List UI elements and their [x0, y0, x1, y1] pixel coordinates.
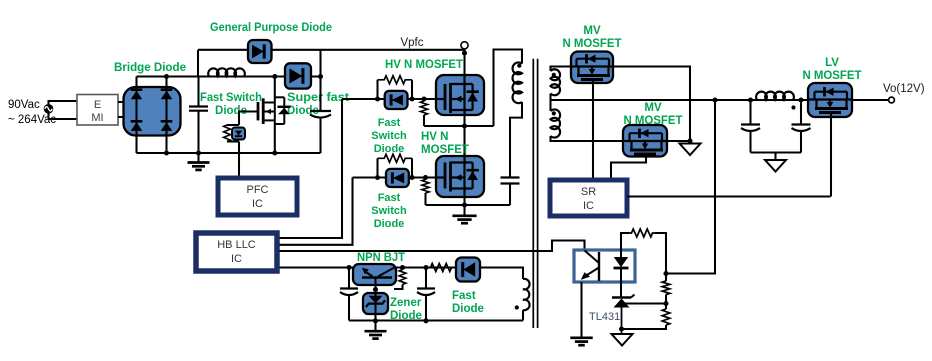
transformer T1 secondary 2 — [551, 109, 561, 137]
label NPN BJT — [357, 252, 405, 264]
wire R8 to divider — [655, 233, 666, 281]
svg-text:Bridge Diode: Bridge Diode — [114, 62, 186, 74]
svg-text:PFC: PFC — [247, 184, 269, 196]
zener diode D11 — [366, 293, 385, 314]
junction super fast diode output — [318, 74, 323, 79]
wire LED to resistor — [621, 233, 629, 250]
junction output cap1 — [748, 97, 753, 102]
junction gate1 left — [375, 96, 380, 101]
label Fast Switch Diode 1 line2 — [371, 130, 407, 142]
ground TL431 triangle — [612, 334, 633, 346]
wire LED cathode to TL431 — [620, 282, 622, 298]
svg-text:Switch: Switch — [371, 205, 407, 217]
wire Q3 gate rail — [353, 176, 437, 178]
PFC gate network loop — [227, 125, 239, 142]
transformer primary dot — [517, 64, 521, 68]
svg-text:Fast: Fast — [378, 192, 401, 204]
wire resonant return rail — [426, 204, 511, 206]
fast diode D12 box — [456, 258, 480, 282]
HV N MOSFET Q2 box — [436, 75, 484, 115]
PFC body diode D7 — [275, 97, 291, 124]
junction R6 top — [400, 265, 405, 270]
wire Q4 gate to SR IC — [592, 83, 594, 178]
label MV N MOSFET 2 line2 — [624, 115, 683, 127]
wire EMI to bridge input 2 — [118, 116, 167, 118]
wire HB LLC to gate2 — [280, 178, 353, 245]
wire NPN rail segment — [396, 266, 456, 268]
wire gate network to PFC IC — [238, 142, 240, 177]
wire HB LLC to opto collector — [280, 241, 585, 252]
label MV N MOSFET 2 line1 — [644, 102, 662, 114]
wire fast diode to aux winding — [480, 268, 523, 280]
junction MV common — [687, 138, 692, 143]
svg-text:MV: MV — [644, 102, 662, 114]
PFC output cap C2 wire top — [319, 50, 321, 111]
HV N MOSFET Q3 — [436, 153, 479, 194]
ground HV source — [452, 216, 476, 223]
wire SR IC to LV gate — [627, 195, 831, 197]
wire bottom aux rail — [349, 319, 523, 321]
svg-text:MOSFET: MOSFET — [421, 144, 469, 156]
wire C1 bottom lead — [197, 111, 199, 153]
junction bridge bottom right — [164, 150, 169, 155]
svg-text:IC: IC — [252, 198, 263, 210]
svg-text:Vpfc: Vpfc — [400, 37, 423, 49]
junction C1 at DC- rail — [196, 150, 201, 155]
super fast diode D6 — [289, 68, 303, 84]
Vpfc terminal — [461, 42, 468, 49]
bridge diode D1 — [131, 90, 143, 100]
LV N MOSFET Q6 — [809, 87, 852, 116]
label Fast Diode line2 — [452, 303, 484, 315]
Vo terminal — [889, 97, 895, 103]
label Fast Diode line1 — [452, 290, 476, 302]
bridge diode D3 — [131, 121, 143, 131]
TL431 U5 — [612, 295, 635, 335]
ground MV triangle — [680, 141, 701, 155]
fast switch diode D9 — [391, 94, 403, 105]
svg-text:~ 264Vac: ~ 264Vac — [8, 114, 56, 126]
optocoupler U4 box — [574, 250, 635, 282]
MV N MOSFET Q5 box — [623, 125, 667, 157]
bridge left leg wire — [135, 77, 137, 154]
junction output rail feedback tap — [712, 97, 717, 102]
SR IC U2 box — [550, 180, 627, 216]
junction PFC source at DC- rail — [272, 150, 277, 155]
label Bridge Diode — [114, 62, 186, 74]
wire C5 top lead — [800, 100, 802, 125]
transformer T1 primary — [513, 62, 522, 103]
NPN cap C7 top lead — [425, 268, 427, 289]
junction divider top — [663, 271, 668, 276]
wire PFC gate — [239, 112, 248, 126]
label Fast Switch Diode 2 line3 — [374, 218, 405, 230]
ground output triangle — [765, 153, 786, 172]
wire C1 top lead — [197, 77, 199, 107]
label Super fast Diode line1 — [287, 92, 349, 104]
junction below Vpfc terminal — [462, 50, 467, 55]
wire primary bottom — [510, 102, 522, 178]
PFC IC label — [247, 184, 269, 210]
ground zener — [365, 331, 387, 338]
HB LLC IC U3 box — [196, 233, 277, 271]
wire R10 bottom — [622, 325, 667, 329]
aux rail resistor R7 — [430, 264, 452, 272]
svg-text:HV N: HV N — [421, 131, 448, 143]
bridge rectifier BR1 box — [124, 87, 181, 136]
gate1 loop — [378, 80, 413, 99]
fast switch diode D10 box — [386, 169, 409, 187]
ground opto — [570, 338, 592, 345]
wire LV gate drop — [830, 117, 832, 197]
junction EMI input 2 at right leg — [164, 114, 169, 119]
svg-text:IC: IC — [231, 253, 242, 265]
label LV N MOSFET line2 — [803, 70, 862, 82]
label Vpfc — [400, 37, 423, 49]
junction gate2 left — [375, 175, 380, 180]
NPN BJT Q7 — [362, 268, 394, 286]
bulk capacitor C1 — [189, 107, 208, 111]
SR IC label — [581, 186, 596, 212]
fast switch diode D10 — [392, 172, 404, 183]
general purpose diode D5 box — [248, 40, 272, 63]
label Zener Diode line1 — [390, 297, 422, 309]
junction TL431 anode — [619, 326, 624, 331]
NPN BJT Q7 box — [353, 264, 396, 285]
label LV N MOSFET line1 — [825, 57, 839, 69]
transformer secondary 1 dot — [552, 73, 556, 77]
wire center tap — [549, 94, 551, 112]
junction C7 at bottom rail — [423, 318, 428, 323]
wire AC source to EMI bottom — [49, 114, 78, 120]
NPN cap C6 top lead — [348, 268, 350, 289]
MV N MOSFET Q4 box — [571, 52, 613, 84]
wire Q5 to common — [667, 140, 690, 142]
wire C4 top lead — [749, 100, 751, 125]
zener diode D11 box — [363, 293, 388, 314]
wire C3 bottom — [509, 184, 511, 206]
junction gate2 pulldown — [423, 175, 428, 180]
label Vo(12V) — [883, 83, 925, 95]
svg-text:MV: MV — [583, 25, 601, 37]
junction gate2 right — [409, 175, 414, 180]
wire DC- rail — [137, 152, 321, 154]
bridge right leg wire — [165, 77, 167, 154]
wire DC+ rail — [137, 75, 321, 77]
HV N MOSFET Q3 box — [436, 156, 484, 197]
wire AC source to EMI top — [49, 101, 78, 104]
wire half-bridge mid node — [424, 125, 494, 127]
wire HB LLC to gate1 — [280, 99, 343, 238]
PFC MOSFET Q1 — [248, 98, 275, 124]
label HV N MOSFET bottom line1 — [421, 131, 448, 143]
PFC IC U1 box — [218, 178, 297, 215]
junction zener at bottom rail — [373, 318, 378, 323]
svg-text:E: E — [94, 99, 101, 111]
label MV N MOSFET 1 line2 — [563, 38, 622, 50]
svg-text:Super fast: Super fast — [287, 92, 349, 104]
wire HB LLC to NPN rail — [280, 266, 354, 268]
junction NPN cap2 — [423, 265, 428, 270]
label Super fast Diode line2 — [287, 105, 319, 117]
PFC gate diode D8 — [235, 131, 242, 137]
junction divider mid — [663, 301, 668, 306]
gate2 pulldown resistor R5 — [422, 178, 429, 206]
MV N MOSFET Q5 — [624, 129, 667, 158]
junction output cap2 — [798, 97, 803, 102]
wire zener to ground — [374, 314, 376, 331]
svg-text:Fast: Fast — [378, 117, 401, 129]
wire output cap common — [751, 151, 802, 153]
svg-text:90Vac: 90Vac — [8, 99, 40, 111]
label Fast Switch Diode 2 line2 — [371, 205, 407, 217]
svg-text:Fast: Fast — [452, 290, 476, 302]
svg-text:LV: LV — [825, 57, 839, 69]
label Fast Switch Diode left line1 — [200, 92, 262, 104]
svg-text:N MOSFET: N MOSFET — [803, 70, 862, 82]
MV N MOSFET Q4 — [571, 54, 614, 83]
svg-text:General Purpose Diode: General Purpose Diode — [210, 22, 332, 34]
LV N MOSFET Q6 box — [808, 83, 852, 117]
label HV N MOSFET top — [385, 59, 463, 71]
wire BJT base to zener — [374, 285, 376, 293]
output cap C4 — [741, 125, 760, 132]
PFC MOSFET Q1 drain wire — [274, 77, 276, 103]
transformer T1 secondary 1 — [551, 69, 561, 95]
gate2 loop — [378, 158, 413, 177]
svg-text:Zener: Zener — [390, 297, 422, 309]
junction gate1 right — [409, 96, 414, 101]
transformer secondary 2 dot — [552, 111, 556, 115]
svg-text:HV N MOSFET: HV N MOSFET — [385, 59, 463, 71]
gate1 pulldown resistor R3 — [420, 99, 427, 126]
output cap C5 — [792, 125, 811, 132]
wire TL431 ref — [625, 302, 666, 304]
svg-text:N MOSFET: N MOSFET — [563, 38, 622, 50]
wire output rail Vo — [551, 99, 889, 101]
label MV N MOSFET 1 line1 — [583, 25, 601, 37]
junction NPN cap1 — [346, 265, 351, 270]
BJT collector resistor R6 — [394, 268, 406, 290]
gate2 resistor R4 — [378, 154, 413, 162]
label General Purpose Diode — [210, 22, 332, 34]
resonant capacitor C3 — [501, 178, 520, 184]
label 90Vac line1 — [8, 99, 40, 111]
label 90Vac line2 — [8, 114, 56, 126]
gate1 resistor R2 — [378, 76, 413, 84]
wire EMI to bridge input 1 — [118, 101, 137, 103]
wire opto emitter to ground — [580, 282, 582, 338]
wire Q2 source to Q3 drain — [463, 115, 465, 163]
wire C5 bottom lead — [800, 131, 802, 153]
junction mid node — [462, 123, 467, 128]
wire C4 bottom lead — [749, 131, 751, 153]
fast switch diode D9 box — [385, 91, 408, 109]
svg-text:Vo(12V): Vo(12V) — [883, 83, 925, 95]
wire Q2 gate rail — [342, 98, 436, 100]
optocoupler phototransistor — [581, 251, 599, 282]
junction PFC MOSFET drain at rail — [272, 74, 277, 79]
label Fast Switch Diode 2 line1 — [378, 192, 401, 204]
PFC source wire — [274, 120, 276, 153]
wire HV drain chain upper — [463, 49, 465, 75]
junction Q3 source at return — [462, 202, 467, 207]
transformer T1 core — [533, 59, 537, 328]
wire secondary2 bottom — [551, 136, 624, 141]
label Fast Switch Diode 1 line3 — [374, 143, 405, 155]
aux winding dot — [515, 305, 519, 309]
NPN cap C6 — [340, 289, 358, 296]
svg-text:HB LLC: HB LLC — [217, 239, 256, 251]
fast diode D12 — [463, 262, 475, 277]
PFC output cap C2 — [310, 111, 331, 118]
svg-text:Switch: Switch — [371, 130, 407, 142]
NPN cap C7 — [417, 289, 435, 296]
NPN cap C6 bottom lead — [348, 295, 350, 321]
svg-text:TL431: TL431 — [589, 311, 620, 323]
wire R9 to R10 — [665, 295, 667, 310]
boost inductor L1 — [208, 68, 245, 76]
wire aux bottom — [522, 310, 524, 321]
svg-text:IC: IC — [583, 200, 594, 212]
wire mid node riser — [494, 50, 523, 127]
junction BJT base node — [373, 287, 378, 292]
wire Vpfc top rail — [198, 49, 465, 51]
PFC gate resistor R1 — [224, 125, 231, 142]
label Fast Switch Diode left line2 — [215, 105, 247, 117]
label TL431 — [589, 311, 620, 323]
svg-text:Fast Switch: Fast Switch — [200, 92, 262, 104]
svg-text:SR: SR — [581, 186, 596, 198]
wire Q3 source — [463, 192, 465, 215]
svg-text:Diode: Diode — [452, 303, 484, 315]
ground bridge — [188, 153, 210, 170]
PFC gate diode D8 box — [232, 128, 245, 140]
wire feedback drop — [666, 100, 715, 274]
optocoupler LED — [614, 250, 629, 282]
NPN cap C7 bottom lead — [425, 295, 427, 321]
general purpose diode D5 — [252, 44, 264, 58]
transformer T1 aux winding — [523, 279, 530, 310]
label HV N MOSFET bottom line2 — [421, 144, 469, 156]
bridge diode D4 — [161, 121, 173, 131]
wire Q5 gate to SR IC — [611, 157, 646, 178]
super fast diode D6 box — [285, 63, 311, 88]
junction gate1 pulldown — [421, 96, 426, 101]
AC source V1 — [44, 104, 54, 114]
junction bridge top right — [164, 74, 169, 79]
svg-text:MI: MI — [91, 112, 103, 124]
wire Q4 to common — [613, 67, 690, 142]
divider resistor R9 — [662, 281, 670, 295]
svg-text:NPN BJT: NPN BJT — [357, 252, 405, 264]
inductor dot — [791, 105, 795, 109]
label Zener Diode line2 — [390, 310, 422, 322]
wire secondary1 top — [551, 67, 572, 72]
svg-text:Diode: Diode — [374, 218, 405, 230]
divider resistor R10 — [662, 309, 670, 325]
HV N MOSFET Q2 — [436, 75, 479, 116]
HB LLC IC label — [217, 239, 256, 265]
PFC output cap C2 bottom lead — [319, 118, 321, 154]
EMI filter block — [77, 95, 118, 126]
output inductor L2 — [756, 92, 794, 100]
bridge diode D2 — [161, 90, 173, 100]
wire riser bridge to top rail — [197, 50, 199, 77]
label Fast Switch Diode 1 line1 — [378, 117, 401, 129]
feedback resistor R8 — [629, 229, 655, 237]
